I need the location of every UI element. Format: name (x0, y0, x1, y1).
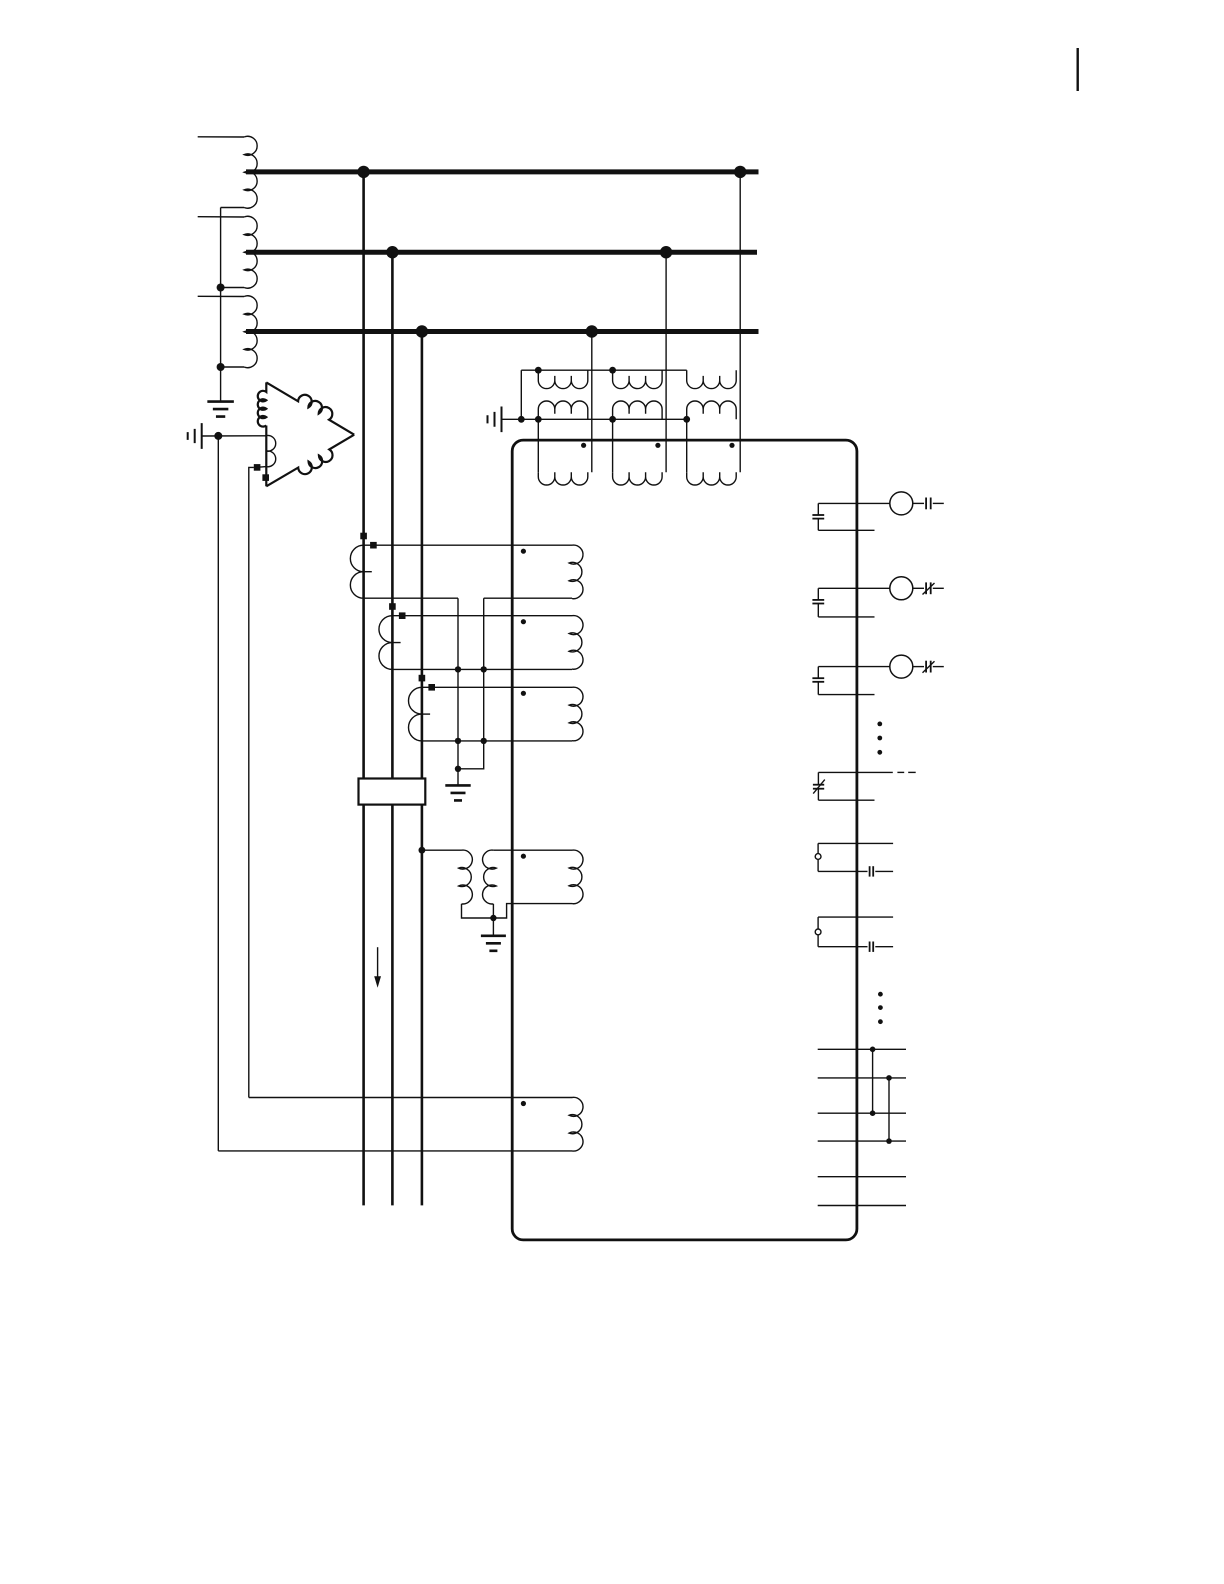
junction return V1 row B (455, 666, 461, 672)
wire output pin upper (818, 587, 890, 589)
junction tertiary ground wire (214, 432, 222, 440)
wire contact out (933, 666, 944, 668)
wire output lower out (875, 870, 893, 872)
VT B secondary winding (613, 401, 663, 419)
polarity dot relay coil B (521, 619, 526, 624)
feeder phase A (362, 172, 365, 1206)
wire aux primary return (462, 904, 494, 918)
relay tertiary voltage coil (569, 1097, 583, 1151)
polarity dot relay tertiary coil (521, 1101, 526, 1106)
VT B primary winding (613, 370, 663, 388)
relay ground current coil (569, 850, 583, 904)
terminal pin line 6 (818, 1205, 906, 1207)
wire aux ground stub (492, 918, 494, 936)
junction feeder C aux tap (419, 847, 426, 854)
ground wye neutral (207, 402, 234, 417)
contact slash (923, 583, 935, 595)
wire output pin lower (818, 616, 874, 618)
wire CT common return V2 (458, 598, 484, 769)
internal contact plates (812, 677, 824, 679)
tertiary delta top edge (266, 382, 354, 434)
source winding phase C (244, 296, 257, 368)
CT A polarity square on feeder (360, 533, 367, 540)
wire coil to contact (913, 502, 924, 504)
relay current coil B (569, 616, 583, 670)
ellipsis dots group 2 (878, 992, 883, 997)
junction neutral-B (217, 284, 225, 292)
junction return V2 row B (481, 666, 487, 672)
wire CT common return V1 (457, 598, 459, 785)
wire phase A lead-in (198, 136, 244, 138)
wire contact out (933, 587, 944, 589)
internal contact slash (813, 780, 825, 794)
ground VT secondary (488, 407, 502, 433)
wire output pin upper (818, 502, 890, 504)
aux transformer primary winding (459, 850, 473, 904)
wire CT B return (392, 668, 572, 670)
polarity square tertiary coil (254, 464, 261, 471)
wire VT neutral drop (520, 370, 522, 419)
junction jumper1 top (870, 1047, 876, 1053)
terminal pin line 1 (818, 1048, 906, 1050)
tertiary broken-delta coil (257, 435, 276, 467)
relay voltage winding C (687, 472, 737, 485)
output contact bars (869, 866, 871, 876)
CT A winding centre tap tick (364, 571, 372, 573)
wire VT A phase drop (591, 332, 593, 473)
VT A secondary winding (538, 401, 588, 419)
wire CT C lead to relay (422, 686, 572, 688)
CT C polarity square on lead (428, 684, 435, 691)
relay box (512, 440, 857, 1240)
junction VT ground 3 (609, 416, 616, 423)
wire tertiary polarity to relay (249, 467, 254, 1097)
jumper wire 2 (888, 1078, 890, 1141)
wire output pin lower (818, 694, 874, 696)
junction VT neutral A (535, 367, 542, 374)
wire VT primary neutral (521, 369, 686, 371)
wire coil to contact (913, 666, 924, 668)
ellipsis dots group 1 (877, 722, 882, 727)
internal contact plates (812, 514, 824, 516)
contact slash (923, 661, 935, 673)
internal coil leg lower (817, 935, 819, 947)
wire coil to contact (913, 587, 924, 589)
source winding phase A (244, 136, 257, 208)
junction VT neutral B (609, 367, 616, 374)
wire aux secondary return (492, 904, 494, 918)
CT A polarity square on lead (370, 542, 377, 549)
junction bus C feeder (416, 325, 428, 337)
junction jumper1 bottom (870, 1110, 876, 1116)
CT B winding centre tap tick (392, 642, 400, 644)
feeder phase B (391, 252, 394, 1205)
output contact (925, 582, 927, 594)
wire VT C secondary leg (686, 419, 688, 472)
bus phase C (246, 329, 759, 334)
output coil circle (890, 492, 913, 515)
CT C polarity square on feeder (419, 675, 426, 682)
wire aux secondary to relay (493, 849, 572, 851)
relay voltage winding B (613, 472, 663, 485)
internal slashed contact plates (813, 784, 824, 786)
neutral wire (220, 208, 222, 402)
relay current coil A (569, 545, 583, 599)
polarity square delta edge (262, 474, 269, 481)
source winding phase B (244, 216, 257, 288)
CT B secondary winding (379, 616, 392, 670)
wire VT B secondary leg (612, 419, 614, 472)
wire output pin upper (818, 666, 890, 668)
revision change bar (1077, 48, 1079, 91)
terminal pin line 3 (818, 1112, 906, 1114)
bus phase A (246, 169, 759, 174)
junction bus A feeder (357, 166, 369, 178)
VT C secondary winding (687, 401, 737, 419)
junction neutral-C (217, 363, 225, 371)
CT C secondary winding (409, 687, 422, 741)
junction VT ground 2 (535, 416, 542, 423)
wire phase C lead-in (198, 295, 244, 297)
internal circle (815, 854, 821, 860)
dashed continuation (897, 771, 904, 773)
wire relay output upper (818, 916, 893, 918)
junction aux common (490, 915, 496, 921)
junction bus B VT (660, 246, 672, 258)
wire relay output upper (818, 842, 893, 844)
relay current coil C (569, 687, 583, 741)
internal contact plates (812, 599, 824, 601)
bus phase B (246, 250, 757, 255)
wire relay coil A return segment (484, 597, 572, 599)
wire tertiary relay return (218, 1150, 572, 1152)
wire dashed output pin upper (818, 771, 892, 773)
junction V1-V2 tie (455, 766, 461, 772)
terminal pin line 5 (818, 1176, 906, 1178)
junction jumper2 top (886, 1075, 892, 1081)
output contact (925, 498, 927, 510)
VT A primary winding (538, 370, 588, 388)
wire output lower out (875, 946, 893, 948)
CT A secondary winding (350, 545, 363, 598)
polarity dot relay coil A (521, 549, 526, 554)
junction VT ground 4 (683, 416, 690, 423)
wire relay ground coil return (493, 904, 572, 918)
internal coil leg lower (817, 859, 819, 871)
internal circle (815, 929, 821, 935)
output contact (925, 661, 927, 673)
polarity dot relay ground coil (521, 854, 526, 859)
feeder phase C (421, 332, 424, 1206)
wire relay output lower (818, 946, 867, 948)
internal coil leg upper (817, 917, 819, 929)
tertiary delta winding (258, 382, 267, 426)
jumper wire 1 (872, 1049, 874, 1113)
wire relay output lower (818, 870, 867, 872)
wire tertiary return to relay (217, 436, 219, 1151)
junction jumper2 bottom (886, 1138, 892, 1144)
wire CT A return left segment (364, 597, 458, 599)
internal coil leg upper (817, 843, 819, 853)
VT C primary winding (687, 370, 737, 388)
internal capacitor leg (817, 503, 819, 514)
junction bus B feeder (386, 246, 398, 258)
CT B polarity square on lead (399, 612, 406, 619)
load current arrow (377, 947, 379, 978)
wire phase A winding bottom to neutral (221, 207, 245, 209)
wire VT C phase drop (739, 172, 741, 472)
polarity dot VT C (729, 443, 734, 448)
junction bus C VT (586, 325, 598, 337)
ground tertiary (188, 423, 202, 449)
CT C winding centre tap tick (422, 713, 430, 715)
wire tertiary ground (202, 435, 267, 437)
wire CT A lead to relay (364, 544, 572, 546)
output contact bars (869, 942, 871, 952)
wire VT A secondary leg (537, 419, 539, 472)
ground CT common (445, 785, 470, 800)
junction bus A VT (734, 166, 746, 178)
terminal pin line 2 (818, 1077, 906, 1079)
wire phase C winding bottom to neutral (221, 366, 245, 368)
polarity dot relay coil C (521, 691, 526, 696)
tertiary delta bottom edge (266, 435, 354, 487)
internal capacitor leg (817, 667, 819, 678)
wire VT secondary ground bus (502, 418, 687, 420)
output coil circle (890, 655, 913, 678)
polarity dot VT A (581, 443, 586, 448)
wire CT B lead to relay (392, 615, 572, 617)
aux transformer secondary winding (483, 850, 497, 904)
wire dashed output pin lower (818, 799, 874, 801)
ground aux common (481, 936, 506, 951)
output coil circle (890, 577, 913, 600)
wire CT C return (422, 740, 572, 742)
wire output pin lower (818, 529, 874, 531)
internal slashed contact leg (817, 772, 819, 784)
wire phase B winding bottom to neutral (221, 287, 245, 289)
junction return V2 row C (481, 738, 487, 744)
tertiary delta left edge lower (265, 426, 267, 487)
relay voltage winding A (538, 472, 588, 485)
polarity dot VT B (655, 443, 660, 448)
wire aux tap lead (422, 849, 462, 851)
wire contact out (933, 502, 944, 504)
CT B polarity square on feeder (389, 603, 396, 610)
block on feeders (359, 779, 426, 805)
terminal pin line 4 (818, 1140, 906, 1142)
internal capacitor leg (817, 588, 819, 599)
wire phase B lead-in (198, 216, 244, 218)
junction return V1 row C (455, 738, 461, 744)
wire tertiary lead to relay (249, 1097, 572, 1099)
wire VT B phase drop (665, 252, 667, 472)
junction VT ground 1 (518, 416, 525, 423)
